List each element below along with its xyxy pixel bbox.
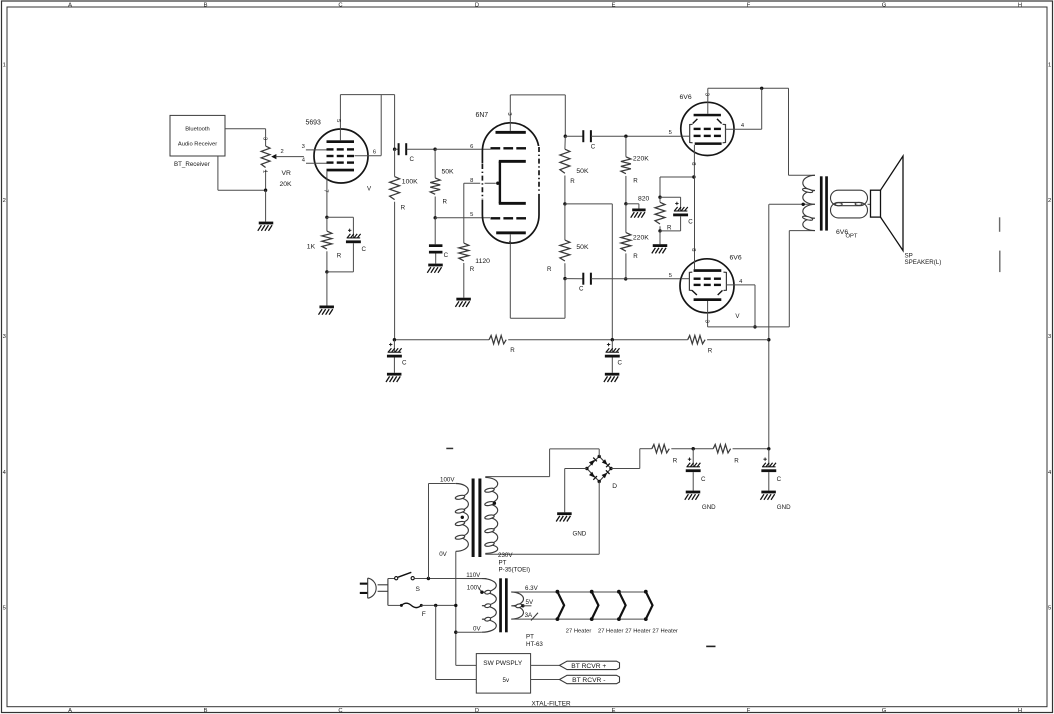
svg-text:5: 5 — [669, 273, 672, 279]
junction dot filter node 1 — [692, 447, 695, 450]
svg-text:PT: PT — [526, 634, 534, 641]
6N7 cathode structure — [499, 160, 526, 163]
svg-text:B: B — [204, 708, 208, 714]
tube 6V6 upper envelope — [681, 102, 734, 155]
power transformer PT primary winding — [456, 484, 469, 552]
heater filament 27 Heater #2 — [592, 592, 599, 619]
svg-text:C: C — [701, 476, 706, 483]
junction dot 820 bottom — [658, 229, 661, 232]
resistor 50K lower plate load — [560, 240, 570, 261]
6N7 grid 2 dashes — [491, 217, 501, 219]
svg-text:5V: 5V — [526, 599, 534, 606]
wire cathode line junction — [660, 176, 694, 178]
wire plate B+ top — [708, 87, 789, 89]
svg-text:VR: VR — [282, 170, 292, 177]
svg-text:G: G — [882, 2, 887, 8]
wire plate to OPT bottom — [708, 326, 790, 328]
svg-text:220K: 220K — [633, 234, 649, 241]
svg-text:P-35(TOEI): P-35(TOEI) — [499, 567, 531, 574]
svg-text:50K: 50K — [576, 244, 589, 251]
junction dot rail-mid B+ node — [563, 202, 566, 205]
wire switch to transformer — [414, 578, 486, 580]
svg-text:5: 5 — [1048, 606, 1051, 612]
6V6 upper grid row 2 — [694, 135, 701, 137]
svg-text:F: F — [747, 2, 751, 8]
resistor R filter 1 — [652, 445, 669, 453]
svg-text:6N7: 6N7 — [476, 112, 489, 119]
svg-text:C: C — [402, 360, 407, 367]
5693 cathode bar — [327, 169, 355, 172]
svg-text:27 Heater: 27 Heater — [598, 628, 624, 634]
switch S — [395, 577, 398, 580]
tube 5693 envelope — [314, 129, 368, 183]
svg-text:5: 5 — [335, 119, 341, 122]
flag BT RCVR + — [531, 664, 560, 666]
resistor R filter 2 — [713, 445, 730, 453]
svg-text:D: D — [475, 2, 479, 8]
potentiometer VR 20K — [261, 146, 270, 167]
6V6 upper pin 4 screen wire — [726, 128, 762, 130]
svg-text:230V: 230V — [498, 552, 513, 559]
wire to 6N7 grid pin 6 — [435, 148, 490, 150]
PT primary top lead 100V — [429, 483, 456, 485]
svg-text:D: D — [612, 483, 617, 490]
speaker SP driver box — [871, 190, 881, 217]
svg-text:100V: 100V — [467, 585, 482, 592]
svg-text:6V6: 6V6 — [680, 94, 692, 101]
6V6 upper grid row 1 — [694, 128, 701, 130]
svg-text:8: 8 — [470, 178, 473, 184]
resistor 50K upper plate load — [560, 149, 570, 173]
svg-text:5v: 5v — [503, 677, 510, 684]
svg-text:BT_Receiver: BT_Receiver — [174, 161, 210, 168]
junction dot node A — [393, 148, 396, 151]
svg-text:1: 1 — [261, 170, 267, 173]
svg-text:BT RCVR -: BT RCVR - — [572, 677, 605, 684]
svg-text:R: R — [633, 177, 638, 184]
heater primary top lead — [456, 578, 482, 580]
OPT center tap dot — [802, 203, 805, 206]
junction dot 820 top — [658, 196, 661, 199]
wire 100V drop — [428, 484, 430, 579]
5693 cathode lead pin 7 — [326, 171, 328, 217]
wire BT box bottom to pot bottom — [217, 156, 219, 190]
svg-text:F: F — [422, 611, 426, 618]
6N7 plate 2 lead pin 4 — [509, 234, 511, 318]
svg-text:8: 8 — [690, 162, 696, 165]
svg-text:1K: 1K — [307, 244, 316, 251]
6N7 cathode junction dot pin 8 — [496, 182, 499, 185]
filter cap C 1 (polarized) — [692, 449, 694, 467]
svg-text:C: C — [618, 360, 623, 367]
wire to 6N7 pin 5 — [435, 217, 490, 219]
wire fuse to 0V line — [421, 604, 456, 606]
6V6 upper plate lead pin 3 — [707, 88, 709, 114]
svg-text:E: E — [612, 708, 616, 714]
wire B+ top to OPT — [788, 88, 790, 175]
svg-text:B: B — [204, 2, 208, 8]
svg-text:PT: PT — [499, 559, 507, 566]
wire secondary to speaker — [868, 203, 871, 205]
OPT center tap wire — [769, 203, 815, 205]
ground below 1K — [326, 272, 328, 306]
resistor R bus right — [688, 336, 705, 344]
heater transformer secondary winding — [511, 592, 523, 619]
svg-text:OPT: OPT — [846, 233, 858, 239]
junction dot screen tie — [760, 87, 763, 90]
resistor 220K lower — [621, 233, 631, 252]
svg-text:C: C — [410, 156, 415, 163]
6V6 upper plate bar — [694, 114, 721, 117]
ground bridge GND — [557, 512, 572, 515]
svg-text:220K: 220K — [633, 156, 649, 163]
svg-text:S: S — [416, 586, 421, 593]
svg-text:GND: GND — [702, 504, 716, 511]
resistor 100K plate load — [390, 177, 400, 200]
svg-text:6: 6 — [373, 149, 376, 155]
PT secondary bottom lead 230V — [485, 553, 599, 555]
svg-text:50K: 50K — [442, 168, 455, 175]
wire plate top run — [340, 94, 394, 96]
svg-text:1: 1 — [1048, 63, 1051, 69]
coupling capacitor C lower (to 6V6 bottom) — [565, 278, 583, 280]
svg-text:7: 7 — [323, 189, 329, 192]
junction dot rail-upper — [564, 135, 567, 138]
svg-text:A: A — [68, 2, 72, 8]
junction dot rail-lower — [563, 277, 566, 280]
svg-text:100V: 100V — [440, 476, 455, 483]
svg-text:C: C — [777, 476, 782, 483]
svg-text:100K: 100K — [402, 178, 418, 185]
junction dot plate-screen — [753, 325, 756, 328]
6V6 lower plate lead pin 3 — [707, 301, 709, 327]
svg-text:SW PWSPLY: SW PWSPLY — [483, 660, 523, 667]
bus wire left segment — [394, 339, 489, 341]
svg-text:D: D — [475, 708, 479, 714]
svg-text:3: 3 — [703, 320, 709, 323]
ground below 820 — [659, 231, 661, 244]
svg-text:0V: 0V — [439, 551, 447, 558]
pot junction dot — [264, 189, 267, 192]
wire rail to plate2 loop — [564, 279, 566, 319]
junction dot 220K top — [624, 135, 627, 138]
bus filter cap C mid (polarized) — [611, 340, 613, 353]
6V6 lower grid row 1 — [694, 278, 701, 280]
wire to SW PWSPLY lower input — [435, 605, 437, 679]
wire rail-mid to B+ drop — [565, 203, 612, 205]
ground below bus cap left — [387, 373, 402, 376]
heater primary bottom lead — [456, 631, 482, 633]
6V6 lower grid row 2 — [694, 284, 701, 286]
svg-text:BT RCVR +: BT RCVR + — [571, 663, 606, 670]
svg-text:50K: 50K — [576, 168, 589, 175]
svg-text:R: R — [734, 457, 739, 464]
svg-text:820: 820 — [638, 195, 650, 202]
svg-text:R: R — [443, 198, 448, 205]
svg-text:5: 5 — [669, 130, 672, 136]
AC plug — [360, 583, 368, 585]
svg-text:SPEAKER(L): SPEAKER(L) — [905, 259, 942, 266]
heater filament 27 Heater #3 — [619, 592, 626, 619]
ground below filter cap 1 — [686, 491, 701, 494]
5693 grid row 2 — [327, 155, 334, 157]
PT secondary top lead — [485, 476, 549, 478]
heater 100V tap — [479, 589, 482, 592]
svg-text:3: 3 — [704, 93, 710, 96]
svg-text:Audio Receiver: Audio Receiver — [178, 142, 217, 148]
junction dot switch wire — [427, 577, 430, 580]
svg-text:C: C — [579, 286, 584, 293]
wire BT box to pot top — [225, 128, 266, 130]
svg-text:H: H — [1018, 708, 1022, 714]
junction dot heater 0V — [454, 631, 457, 634]
wire pin 8 to 1120 — [464, 182, 496, 184]
wire bridge plus to filter — [611, 468, 640, 470]
5693 plate lead pin 5 — [339, 95, 341, 141]
svg-text:R: R — [547, 266, 552, 273]
svg-text:GND: GND — [573, 531, 587, 538]
cathode bottom junction dot — [325, 270, 328, 273]
junction dot pin5 node — [434, 216, 437, 219]
resistor 820 cathode bias — [655, 202, 665, 224]
junction dot 220K mid — [624, 202, 627, 205]
svg-text:3: 3 — [261, 137, 267, 140]
ground below 1120 — [456, 298, 471, 301]
svg-text:R: R — [401, 205, 406, 212]
svg-text:2: 2 — [3, 198, 6, 204]
OPT core — [820, 176, 823, 230]
svg-text:2: 2 — [281, 149, 284, 155]
heater transformer core — [499, 578, 502, 632]
svg-text:6V6: 6V6 — [730, 254, 742, 261]
PT core — [472, 479, 475, 558]
svg-text:HT-63: HT-63 — [526, 641, 543, 648]
PT secondary winding — [485, 477, 497, 553]
svg-text:C: C — [688, 218, 693, 225]
6N7 grid 1 dashes — [491, 147, 501, 149]
junction dot 220K bottom — [624, 277, 627, 280]
heater filament 27 Heater #4 — [646, 592, 653, 619]
svg-text:8: 8 — [690, 248, 696, 251]
junction dot bus left — [393, 338, 396, 341]
svg-text:C: C — [362, 246, 367, 253]
svg-text:R: R — [570, 178, 575, 185]
coupling capacitor C (5693 to 6N7) — [395, 148, 399, 150]
bus wire right segment — [707, 339, 769, 341]
svg-text:3A: 3A — [525, 612, 533, 619]
fuse F — [388, 604, 402, 606]
heater secondary 3A lead — [511, 618, 646, 620]
pot wiper arrow pin 2 — [271, 154, 276, 159]
svg-text:R: R — [673, 457, 678, 464]
cathode bypass cap C (polarized) — [327, 216, 354, 218]
wire B+ center-tap line — [768, 204, 770, 448]
svg-text:R: R — [633, 253, 638, 260]
tube 6V6 lower envelope — [680, 259, 734, 313]
svg-text:Bluetooth: Bluetooth — [185, 127, 210, 133]
svg-text:XTAL-FILTER: XTAL-FILTER — [532, 700, 572, 707]
junction dot grid node — [433, 148, 436, 151]
svg-text:1: 1 — [3, 63, 6, 69]
5693 plate bar — [327, 140, 355, 143]
ground below filter cap 2 — [761, 491, 776, 494]
6N7 plate 1 lead pin 3 — [509, 95, 511, 131]
bridge diodes — [589, 460, 595, 466]
svg-text:F: F — [747, 708, 751, 714]
junction dot fuse tee — [434, 604, 437, 607]
svg-text:A: A — [68, 708, 72, 714]
5693 pin 4 stub — [306, 162, 327, 164]
svg-text:3: 3 — [302, 144, 305, 150]
svg-text:H: H — [1018, 2, 1022, 8]
OPT secondary winding loops — [831, 190, 868, 206]
stray mark 1 — [999, 217, 1001, 232]
bus wire mid segment — [508, 339, 688, 341]
SW PWSPLY box — [476, 654, 530, 694]
6N7 plate 2 bar — [496, 231, 526, 234]
wire top to cap junction — [394, 95, 396, 150]
svg-text:27 Heater: 27 Heater — [625, 628, 651, 634]
6V6 upper beam diagonals — [693, 119, 698, 124]
heater transformer HT primary winding — [482, 579, 496, 633]
tube 6N7 envelope — [482, 123, 539, 243]
6V6 lower plate bar — [694, 298, 722, 301]
6V6 upper grid wire pin 5 — [682, 135, 690, 137]
6V6 lower pin 4 screen wire — [726, 284, 755, 286]
coupling capacitor C upper (to 6V6 top) — [565, 135, 583, 137]
svg-text:3: 3 — [3, 334, 6, 340]
PT primary bottom lead 0V — [455, 551, 457, 665]
svg-text:5: 5 — [470, 212, 473, 218]
svg-text:110V: 110V — [466, 572, 481, 579]
6V6 upper cathode lead pin 8 — [693, 145, 695, 177]
flag BT RCVR - — [531, 679, 560, 681]
svg-text:5: 5 — [3, 606, 6, 612]
svg-text:R: R — [510, 347, 515, 354]
wire to filter node 1 — [671, 448, 713, 450]
5693 grid row 3 — [327, 161, 334, 163]
5693 pin 6 wire (screen tied to plate) — [355, 155, 382, 157]
6V6 upper beam plates bracket — [690, 124, 693, 143]
resistor 220K upper — [621, 157, 631, 174]
svg-text:6.3V: 6.3V — [525, 585, 539, 592]
bypass capacitor C (cathode, polarized) — [660, 196, 681, 198]
speaker horn — [881, 156, 904, 251]
junction dot bus right end — [767, 338, 770, 341]
bus filter cap C left (polarized) — [393, 340, 395, 353]
resistor 1120 cathode — [459, 243, 469, 261]
bypass capacitor C to ground — [434, 218, 436, 245]
svg-text:R: R — [470, 266, 475, 273]
stray dash mark right of heaters — [706, 646, 715, 648]
wire 0V to SW PWSPLY upper input — [456, 664, 477, 666]
stray mark 2 — [999, 251, 1001, 273]
svg-text:C: C — [338, 708, 342, 714]
output transformer OPT primary winding — [803, 175, 815, 230]
svg-text:C: C — [591, 144, 596, 151]
6V6 lower beam plates bracket — [689, 272, 692, 290]
bridge corner dots — [598, 455, 601, 458]
svg-text:GND: GND — [777, 504, 791, 511]
6V6 upper cathode bar — [695, 142, 722, 145]
junction dot bus mid — [611, 338, 614, 341]
heater filament 27 Heater #1 — [557, 592, 564, 619]
ground below bypass cap — [428, 264, 443, 267]
PT secondary phase dot — [493, 502, 496, 505]
ground below bus cap mid — [605, 373, 620, 376]
junction dot cathodes — [692, 175, 695, 178]
wire B+ drop to bus — [611, 204, 613, 340]
svg-text:5693: 5693 — [306, 119, 321, 126]
cathode junction dot — [325, 216, 328, 219]
svg-text:0V: 0V — [473, 626, 481, 633]
heater 5V tap — [521, 604, 524, 607]
6V6 lower grid wire pin 5 — [681, 278, 690, 280]
svg-text:3: 3 — [1048, 334, 1051, 340]
svg-text:27 Heater: 27 Heater — [566, 628, 592, 634]
resistor R bus left — [489, 336, 506, 344]
5693 pin 3 stub — [306, 149, 327, 151]
PT primary phase dot — [461, 516, 464, 519]
ground stub at 220K midpoint — [626, 203, 639, 205]
6N7 plate 1 bar — [496, 131, 526, 134]
svg-text:3: 3 — [506, 112, 512, 115]
heater secondary 6.3V lead — [511, 591, 646, 593]
junction dot fuse-0V — [454, 604, 457, 607]
BT receiver block U_BT — [170, 115, 225, 156]
resistor 1K cathode — [322, 231, 332, 249]
wire to filter node 2 — [733, 448, 769, 450]
svg-text:R: R — [708, 347, 713, 354]
ground below pot — [265, 190, 267, 221]
6V6 lower cathode lead pin 8 — [694, 177, 696, 269]
svg-text:C: C — [444, 252, 449, 259]
svg-text:C: C — [338, 2, 342, 8]
filter cap C 2 (polarized) — [768, 449, 770, 467]
svg-text:27 Heater: 27 Heater — [652, 628, 678, 634]
svg-text:6: 6 — [470, 144, 473, 150]
svg-text:20K: 20K — [280, 181, 293, 188]
wire 6N7 plate1 top run — [510, 94, 565, 96]
6V6 lower cathode bar — [694, 269, 722, 272]
resistor 50K grid — [430, 178, 440, 194]
svg-text:1120: 1120 — [475, 258, 490, 265]
wire bridge minus to ground — [565, 468, 587, 470]
bridge rectifier D diamond — [587, 456, 611, 481]
5693 grid row 1 — [327, 148, 334, 150]
junction dot filter node 2 — [767, 447, 770, 450]
6V6 lower beam diagonals — [692, 290, 697, 295]
svg-text:G: G — [882, 708, 887, 714]
stray dash mark above PT — [446, 448, 453, 450]
wire plug to switch — [388, 578, 395, 580]
svg-text:2: 2 — [1048, 198, 1051, 204]
svg-text:R: R — [337, 253, 342, 260]
svg-text:E: E — [612, 2, 616, 8]
